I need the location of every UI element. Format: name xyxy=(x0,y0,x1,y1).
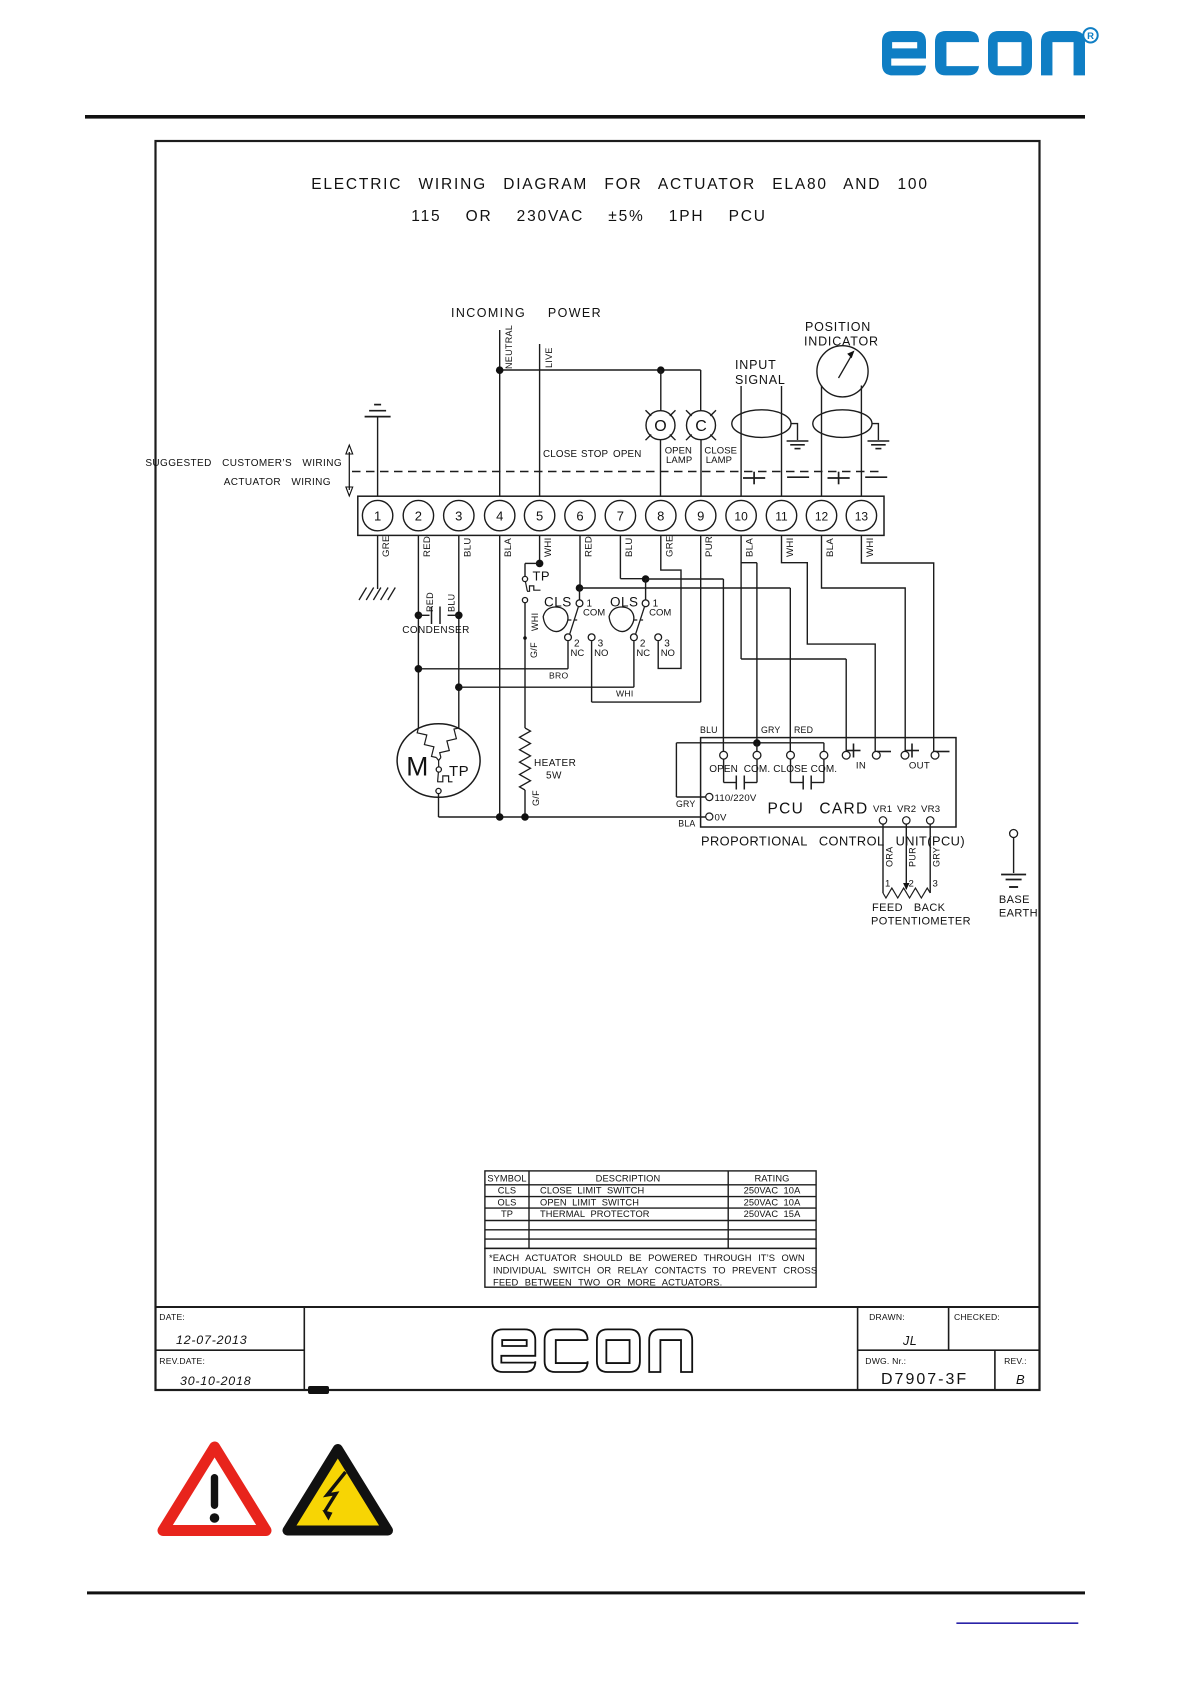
svg-text:CLOSE: CLOSE xyxy=(543,449,577,460)
svg-text:NO: NO xyxy=(661,648,675,659)
svg-text:7: 7 xyxy=(617,508,624,523)
svg-text:PUR: PUR xyxy=(908,847,918,867)
svg-text:BASE: BASE xyxy=(999,894,1030,906)
svg-text:BLU: BLU xyxy=(462,537,473,557)
svg-text:10: 10 xyxy=(734,509,748,523)
svg-text:WHI: WHI xyxy=(543,537,554,557)
svg-text:GRE: GRE xyxy=(381,535,392,557)
svg-text:CLOSE LIMIT SWITCH: CLOSE LIMIT SWITCH xyxy=(540,1186,644,1196)
svg-text:THERMAL PROTECTOR: THERMAL PROTECTOR xyxy=(540,1209,650,1219)
svg-text:OPEN: OPEN xyxy=(613,449,642,460)
svg-text:R: R xyxy=(1087,31,1094,42)
svg-text:TP: TP xyxy=(501,1209,513,1219)
svg-text:B: B xyxy=(1016,1372,1025,1387)
svg-text:NEUTRAL: NEUTRAL xyxy=(504,325,514,369)
svg-text:8: 8 xyxy=(657,508,664,523)
svg-text:VR2: VR2 xyxy=(897,804,916,815)
svg-text:BLU: BLU xyxy=(624,537,635,557)
svg-text:G/F: G/F xyxy=(529,642,539,658)
svg-text:SIGNAL: SIGNAL xyxy=(735,373,786,387)
svg-text:RED: RED xyxy=(584,536,595,557)
svg-text:TP: TP xyxy=(533,569,550,584)
svg-text:ORA: ORA xyxy=(885,847,895,867)
svg-text:250VAC 10A: 250VAC 10A xyxy=(744,1197,801,1207)
svg-text:OPEN LIMIT SWITCH: OPEN LIMIT SWITCH xyxy=(540,1197,639,1207)
svg-text:*EACH ACTUATOR SHOULD BE P: *EACH ACTUATOR SHOULD BE POWERED THROUGH… xyxy=(489,1252,805,1263)
svg-text:DESCRIPTION: DESCRIPTION xyxy=(596,1174,661,1184)
svg-text:9: 9 xyxy=(697,508,704,523)
svg-text:GRE: GRE xyxy=(664,535,675,557)
svg-text:POSITION: POSITION xyxy=(805,320,871,334)
svg-text:BLA: BLA xyxy=(503,538,514,557)
svg-text:11: 11 xyxy=(775,509,788,523)
svg-text:STOP: STOP xyxy=(581,449,609,460)
svg-text:INPUT: INPUT xyxy=(735,358,777,372)
svg-text:NC: NC xyxy=(636,648,650,659)
svg-text:VR3: VR3 xyxy=(921,804,940,815)
svg-text:4: 4 xyxy=(496,508,503,523)
svg-text:13: 13 xyxy=(855,509,869,523)
svg-text:3: 3 xyxy=(933,879,938,890)
svg-text:HEATER: HEATER xyxy=(534,758,576,769)
svg-text:BRO: BRO xyxy=(549,671,569,681)
svg-text:5: 5 xyxy=(536,508,543,523)
svg-text:RED: RED xyxy=(422,536,433,557)
svg-text:WHI: WHI xyxy=(530,613,540,631)
svg-text:SUGGESTED CUSTOMER’S WIRING: SUGGESTED CUSTOMER’S WIRING xyxy=(145,458,342,469)
svg-text:30-10-2018: 30-10-2018 xyxy=(180,1374,251,1388)
svg-text:VR1: VR1 xyxy=(873,804,892,815)
svg-text:BLU: BLU xyxy=(700,725,718,735)
svg-text:COM: COM xyxy=(649,608,671,619)
svg-text:250VAC 15A: 250VAC 15A xyxy=(744,1209,801,1219)
svg-text:5W: 5W xyxy=(546,771,562,782)
svg-text:BLU: BLU xyxy=(447,594,457,612)
svg-text:WHI: WHI xyxy=(785,537,796,557)
svg-text:115 OR 230VAC ±5% 1PH PCU: 115 OR 230VAC ±5% 1PH PCU xyxy=(411,208,766,225)
svg-text:REV.DATE:: REV.DATE: xyxy=(159,1356,205,1366)
svg-text:BLA: BLA xyxy=(745,538,756,557)
svg-text:RATING: RATING xyxy=(754,1174,789,1184)
svg-text:GRY: GRY xyxy=(676,799,696,809)
svg-text:TP: TP xyxy=(449,763,469,780)
svg-text:INDIVIDUAL SWITCH OR RELAY: INDIVIDUAL SWITCH OR RELAY CONTACTS TO P… xyxy=(493,1264,817,1275)
svg-text:LIVE: LIVE xyxy=(544,347,554,368)
svg-text:FEED BACK: FEED BACK xyxy=(872,902,946,914)
svg-text:PCU CARD: PCU CARD xyxy=(768,801,869,818)
svg-text:ELECTRIC WIRING DIAGRAM FOR: ELECTRIC WIRING DIAGRAM FOR ACTUATOR ELA… xyxy=(311,176,929,193)
svg-text:3: 3 xyxy=(455,508,462,523)
svg-text:RED: RED xyxy=(794,725,813,735)
svg-text:OLS: OLS xyxy=(498,1197,517,1207)
svg-text:PROPORTIONAL CONTROL UNIT(PC: PROPORTIONAL CONTROL UNIT(PCU) xyxy=(701,834,965,849)
svg-text:OUT: OUT xyxy=(909,761,930,772)
svg-text:DATE:: DATE: xyxy=(159,1312,185,1322)
svg-text:12-07-2013: 12-07-2013 xyxy=(176,1333,247,1347)
svg-text:WHI: WHI xyxy=(616,689,634,699)
svg-text:CONDENSER: CONDENSER xyxy=(402,625,470,636)
svg-text:BLA: BLA xyxy=(825,538,836,557)
svg-text:1: 1 xyxy=(885,879,890,890)
svg-text:1: 1 xyxy=(374,508,381,523)
svg-text:PUR: PUR xyxy=(704,536,715,557)
svg-text:WHI: WHI xyxy=(865,537,876,557)
svg-text:CHECKED:: CHECKED: xyxy=(954,1312,1000,1322)
svg-text:COM: COM xyxy=(583,608,605,619)
svg-text:SYMBOL: SYMBOL xyxy=(487,1174,526,1184)
svg-text:POTENTIOMETER: POTENTIOMETER xyxy=(871,916,971,928)
svg-text:REV.:: REV.: xyxy=(1004,1356,1027,1366)
svg-text:2: 2 xyxy=(415,508,422,523)
svg-text:JL: JL xyxy=(902,1334,917,1348)
svg-text:D7907-3F: D7907-3F xyxy=(881,1371,968,1388)
svg-text:DWG. Nr.:: DWG. Nr.: xyxy=(865,1356,906,1366)
svg-text:LAMP: LAMP xyxy=(666,455,692,466)
svg-text:CLS: CLS xyxy=(498,1186,516,1196)
svg-text:GRY: GRY xyxy=(932,847,942,867)
svg-text:NO: NO xyxy=(594,648,608,659)
svg-text:M: M xyxy=(406,752,428,782)
svg-text:EARTH: EARTH xyxy=(999,908,1038,920)
svg-text:INCOMING POWER: INCOMING POWER xyxy=(451,306,602,320)
svg-text:DRAWN:: DRAWN: xyxy=(869,1312,905,1322)
svg-text:NC: NC xyxy=(571,648,585,659)
svg-text:0V: 0V xyxy=(715,812,728,823)
svg-text:ACTUATOR WIRING: ACTUATOR WIRING xyxy=(224,477,331,488)
svg-text:12: 12 xyxy=(815,509,829,523)
svg-text:110/220V: 110/220V xyxy=(715,793,757,804)
svg-text:FEED BETWEEN TWO OR MORE: FEED BETWEEN TWO OR MORE ACTUATORS. xyxy=(493,1277,722,1288)
svg-text:IN: IN xyxy=(856,761,866,772)
svg-text:BLA: BLA xyxy=(678,819,695,829)
svg-text:6: 6 xyxy=(576,508,583,523)
svg-text:G/F: G/F xyxy=(531,790,541,806)
svg-text:C: C xyxy=(695,418,707,435)
svg-text:RED: RED xyxy=(425,592,435,612)
svg-text:2: 2 xyxy=(909,879,914,890)
svg-text:250VAC 10A: 250VAC 10A xyxy=(744,1186,801,1196)
svg-text:GRY: GRY xyxy=(761,725,781,735)
svg-text:LAMP: LAMP xyxy=(706,455,732,466)
svg-text:O: O xyxy=(654,418,666,435)
